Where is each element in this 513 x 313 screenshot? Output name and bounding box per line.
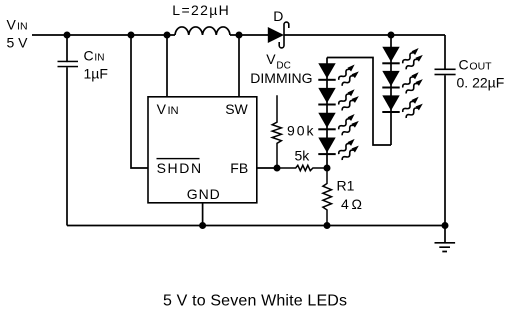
svg-text:90k: 90k bbox=[287, 123, 315, 139]
svg-text:L=22µH: L=22µH bbox=[172, 2, 229, 18]
svg-text:5 V: 5 V bbox=[7, 34, 29, 50]
LED 3 bbox=[382, 95, 424, 120]
junction 5k / R1 / LED string bbox=[324, 165, 331, 172]
svg-text:DIMMING: DIMMING bbox=[250, 70, 312, 86]
junction LED chain on output rail bbox=[388, 32, 395, 39]
svg-text:SW: SW bbox=[225, 101, 248, 117]
junction FB / 90k / 5k bbox=[274, 165, 281, 172]
svg-text:1µF: 1µF bbox=[84, 66, 108, 82]
junction VIN pin / inductor left bbox=[164, 32, 171, 39]
LED 5 bbox=[318, 87, 360, 112]
junction R1 on rail bbox=[324, 222, 331, 229]
svg-text:SHDN: SHDN bbox=[157, 160, 202, 176]
wire right LED string spine bbox=[390, 35, 392, 145]
svg-text:5k: 5k bbox=[295, 148, 311, 164]
wire SW pin bbox=[238, 35, 240, 97]
svg-text:FB: FB bbox=[230, 160, 248, 176]
junction COUT / ground on rail bbox=[442, 222, 449, 229]
svg-text:5 V to Seven White LEDs: 5 V to Seven White LEDs bbox=[163, 293, 347, 310]
wire VIN pin bbox=[166, 35, 168, 97]
LED 6 bbox=[318, 112, 360, 137]
inductor L1 22uH bbox=[175, 27, 230, 35]
wire series link right string to left string bbox=[327, 58, 391, 146]
svg-text:COUT: COUT bbox=[459, 56, 493, 72]
junction CIN on VIN rail bbox=[64, 32, 71, 39]
IC U1 box bbox=[148, 97, 257, 203]
svg-text:D: D bbox=[273, 8, 283, 24]
svg-text:VIN: VIN bbox=[157, 101, 179, 117]
resistor 90k bbox=[272, 95, 281, 168]
wire VIN top rail bbox=[32, 34, 175, 36]
wire bottom ground rail bbox=[67, 225, 445, 227]
LED 2 bbox=[382, 70, 424, 95]
wire SHDN tie-high bbox=[131, 35, 148, 168]
junction SHDN on VIN rail bbox=[128, 32, 135, 39]
wire FB pin bbox=[257, 167, 277, 169]
svg-text:CIN: CIN bbox=[84, 47, 105, 63]
svg-text:VDC: VDC bbox=[266, 51, 290, 72]
svg-text:R1: R1 bbox=[337, 178, 355, 194]
wire left LED string spine bbox=[326, 58, 328, 169]
wire GND pin bbox=[202, 203, 204, 226]
junction GND pin on rail bbox=[199, 222, 206, 229]
junction SW pin / inductor right bbox=[236, 32, 243, 39]
diode D (Schottky) bbox=[268, 27, 284, 43]
resistor R1 4ohm bbox=[323, 168, 332, 226]
svg-text:4Ω: 4Ω bbox=[341, 196, 362, 212]
resistor 5k bbox=[277, 165, 327, 170]
LED 7 bbox=[318, 137, 360, 162]
svg-text:0. 22µF: 0. 22µF bbox=[457, 75, 505, 91]
capacitor CIN 1uF bbox=[66, 35, 68, 62]
svg-text:VIN: VIN bbox=[7, 17, 28, 33]
svg-text:GND: GND bbox=[187, 186, 220, 202]
LED 4 bbox=[318, 63, 360, 88]
capacitor COUT 0.22uF bbox=[444, 35, 446, 69]
ground symbol bbox=[444, 226, 446, 243]
wire SW node rail to diode bbox=[230, 34, 268, 36]
wire diode cathode to output rail bbox=[285, 34, 446, 36]
LED 1 bbox=[382, 46, 424, 71]
